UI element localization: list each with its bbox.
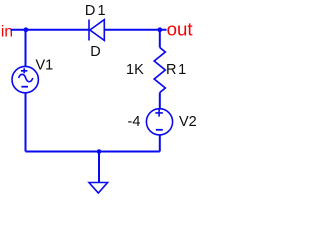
svg-text:-4: -4 [128,114,141,130]
node junction dot right [157,27,162,32]
svg-text:1K: 1K [126,62,144,78]
svg-text:D1: D1 [85,3,108,19]
svg-text:V1: V1 [36,58,54,74]
wire resistor to V2 [159,93,161,109]
diode D1 cathode bar [88,20,90,41]
wire bottom horizontal [26,151,160,153]
wire right vertical top stub [159,29,161,48]
V2 plus sign [155,109,163,116]
V1 minus sign [21,86,28,88]
node junction dot ground [97,149,102,154]
svg-text:R1: R1 [166,62,188,78]
wire left vertical upper [25,29,27,66]
voltage source V2 circle [146,109,172,135]
ground symbol triangle [89,183,108,194]
wire in to diode [11,29,89,31]
wire diode to out [105,29,167,31]
resistor R1 zigzag [154,48,165,93]
svg-text:D: D [90,44,100,60]
voltage source V1 circle [12,66,38,92]
V1 sine symbol [19,74,33,81]
diode D1 triangle [90,20,104,41]
V2 minus sign [156,129,163,131]
wire V2 to bottom corner [159,135,161,152]
wire left vertical lower [25,93,27,152]
wire ground stem [98,152,100,183]
svg-text:V2: V2 [179,114,197,130]
node junction dot left [24,27,29,32]
svg-text:out: out [167,20,193,40]
V1 plus sign [21,68,27,73]
svg-text:in: in [1,23,13,40]
